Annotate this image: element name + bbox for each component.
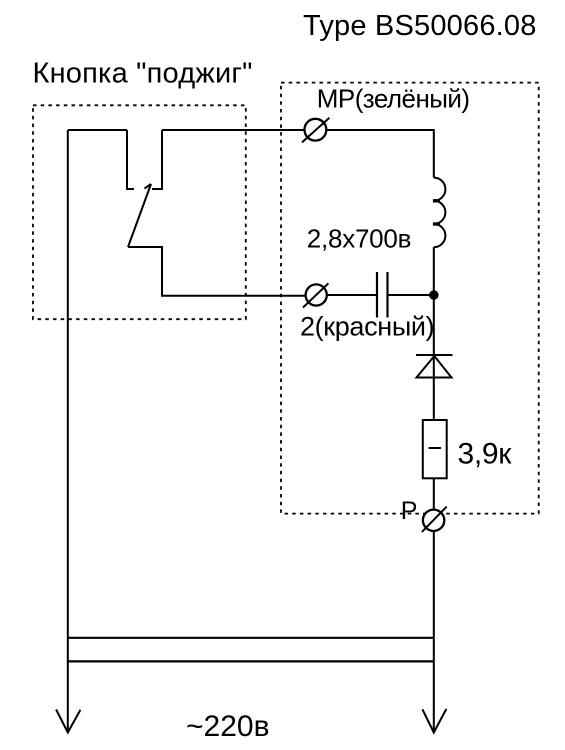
arrow right mains [422, 709, 446, 733]
terminal 2 slash [303, 283, 328, 307]
svg-text:Р: Р [401, 497, 418, 525]
arrow left mains [56, 710, 80, 733]
switch S1 right contact [152, 130, 162, 189]
switch S1 left contact [127, 130, 134, 189]
wire: mains cross line lower [68, 660, 434, 662]
wire: left mains rail [67, 130, 69, 733]
svg-text:Type BS50066.08: Type BS50066.08 [303, 10, 537, 42]
terminal 2 (red) [306, 284, 327, 305]
capacitor C1 right plate [386, 272, 388, 318]
terminal MP (green) [305, 119, 327, 141]
wire: terminal 2 to capacitor C1 [327, 294, 376, 296]
node A junction dot [429, 290, 439, 300]
resistor R1 internal dash [429, 447, 441, 449]
svg-text:2,8х700в: 2,8х700в [307, 224, 411, 254]
inductor L1 (spark coil primary) [434, 178, 446, 248]
svg-text:МР(зелёный): МР(зелёный) [317, 84, 470, 114]
svg-text:Кнопка "поджиг": Кнопка "поджиг" [33, 58, 253, 90]
capacitor C1 left plate [376, 272, 378, 318]
inductor L1 junction curl bottom [433, 222, 440, 225]
diode VD1 triangle [417, 356, 452, 378]
terminal P slash [422, 507, 447, 532]
wire: coil to node A [433, 247, 435, 295]
wire: top to MP terminal [162, 129, 305, 131]
svg-text:~220в: ~220в [186, 710, 270, 743]
wire: top left horizontal [68, 129, 127, 131]
wire: MP terminal to coil [327, 130, 434, 178]
wire: mains cross line upper [68, 637, 434, 639]
switch S1 arm arrowhead [145, 184, 152, 189]
dashed box: igniter unit enclosure [281, 83, 539, 514]
wire: right mains rail [433, 531, 435, 733]
terminal P [423, 510, 444, 531]
resistor R1 body [423, 420, 447, 478]
wire: capacitor C1 to node A [389, 294, 434, 296]
switch S1 arm [128, 184, 151, 247]
diode VD1 cathode bar [416, 354, 453, 356]
svg-text:3,9к: 3,9к [458, 437, 513, 470]
wire: switch lower contact run [128, 247, 306, 296]
wire: node A down through diode to resistor [433, 295, 435, 420]
dashed box: button enclosure [33, 105, 246, 319]
inductor L1 junction curl top [433, 199, 440, 202]
svg-text:2(красный): 2(красный) [300, 312, 434, 342]
terminal MP slash [302, 118, 329, 143]
wire: resistor R1 to terminal P [433, 478, 435, 509]
